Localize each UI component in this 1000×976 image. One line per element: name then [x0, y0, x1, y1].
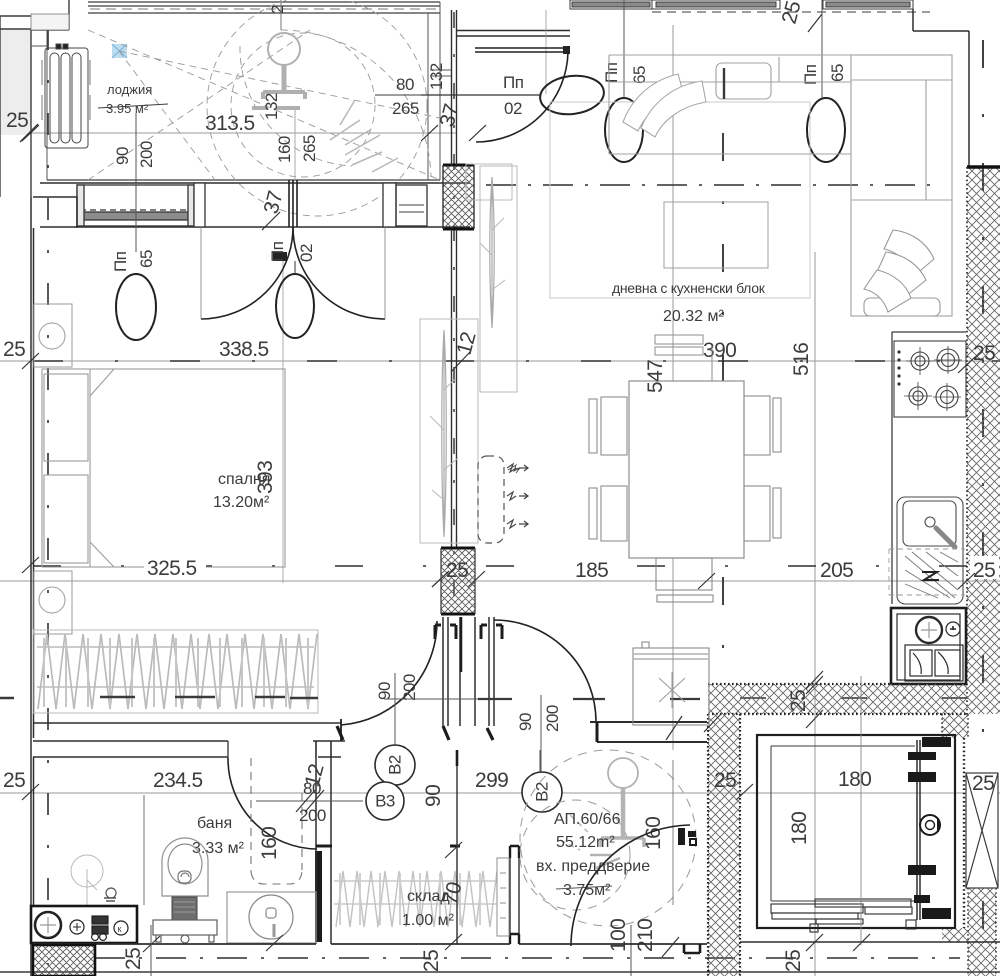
svg-text:13.20м²: 13.20м² [213, 494, 270, 511]
bedroom door arc [341, 621, 437, 725]
window west (loggia-bedroom) [77, 185, 194, 226]
svg-text:160: 160 [642, 817, 665, 850]
svg-text:160: 160 [275, 136, 294, 163]
storage door jambs [316, 845, 460, 848]
wall axis dashes x=48 [47, 28, 49, 965]
rug under seating [550, 102, 810, 298]
axis line G vertical x=283 bedroom pendant wire [282, 252, 284, 583]
balcony double door closed leaves [289, 180, 297, 227]
svg-text:25: 25 [446, 559, 468, 582]
kitchen counter along east wall [892, 332, 966, 604]
balcony door to loggia [475, 48, 568, 52]
svg-text:25: 25 [973, 342, 995, 365]
vanity between storage and hall [510, 846, 519, 944]
bed [42, 369, 285, 567]
east wall hatch block above elevator [942, 714, 968, 738]
console above table [655, 335, 712, 381]
elevator door mechanism [917, 740, 920, 920]
entrance door leaf [678, 828, 685, 845]
corridor hatch band horizontal [708, 684, 968, 714]
axis line D horizontal y=793 [0, 792, 1000, 794]
svg-text:55.12m²: 55.12m² [556, 834, 615, 851]
bedroom top wall band [40, 183, 470, 227]
stove [894, 341, 966, 417]
nightstand north [34, 304, 72, 367]
corridor hatch band vertical [708, 714, 740, 976]
elevator axis ticks [806, 676, 870, 951]
door jamb right [383, 183, 396, 227]
cistern dark [172, 897, 197, 920]
svg-text:200: 200 [137, 141, 156, 168]
svg-text:25: 25 [972, 772, 994, 795]
pendant lamp bedroom center [276, 274, 314, 338]
axis line C horizontal y=581 [0, 580, 1000, 582]
svg-text:25: 25 [6, 109, 28, 132]
axis line E vertical x=673 [672, 25, 674, 750]
bathroom west wall [31, 738, 34, 976]
sofa sectional [609, 55, 952, 316]
ceiling light cross [659, 672, 685, 708]
dim chain dashes y=698 elevator band [740, 697, 968, 699]
wall step under loggia [33, 197, 77, 228]
wall segment between doors [460, 617, 475, 726]
bedroom south wall [33, 723, 341, 741]
chairs east [744, 396, 770, 455]
sink unit [897, 497, 963, 604]
svg-text:516: 516 [790, 343, 813, 376]
loggia right wall [428, 2, 440, 180]
svg-text:Пп: Пп [268, 241, 287, 262]
svg-text:180: 180 [838, 768, 871, 791]
bottom right wall lines [740, 941, 1000, 943]
svg-text:25: 25 [122, 948, 145, 970]
storage/hall wall [456, 750, 458, 944]
svg-text:390: 390 [703, 339, 736, 362]
hall door arc [494, 620, 596, 722]
svg-text:дневна с кухненски блок: дневна с кухненски блок [612, 280, 766, 296]
svg-text:299: 299 [475, 769, 508, 792]
wall axis dashes x=983 [982, 40, 984, 965]
axis line B horizontal y=361 [0, 360, 1000, 362]
gray window pocket right of column [466, 164, 512, 200]
svg-text:баня: баня [197, 815, 232, 832]
svg-text:180: 180 [788, 812, 811, 845]
svg-text:80: 80 [396, 75, 414, 94]
pendant horizontal ellipse [538, 72, 606, 118]
svg-text:393: 393 [254, 461, 277, 494]
svg-text:Пп: Пп [111, 251, 130, 272]
curved chaise cushions [623, 74, 706, 137]
tick marks on axis A [22, 125, 486, 141]
svg-text:65: 65 [137, 250, 156, 268]
plant bath [71, 855, 103, 908]
svg-text:25: 25 [714, 769, 736, 792]
svg-text:234.5: 234.5 [153, 769, 203, 792]
svg-text:325.5: 325.5 [147, 557, 197, 580]
wall axis dashes x=723 [722, 133, 724, 672]
hall dashed turning circles [520, 750, 696, 926]
pendant lamp living west [605, 98, 643, 162]
svg-text:В2: В2 [386, 755, 405, 775]
ottoman [664, 202, 768, 268]
svg-text:100: 100 [607, 919, 630, 952]
svg-text:25: 25 [420, 950, 443, 972]
shower glass dashed [251, 758, 302, 884]
svg-text:2: 2 [268, 5, 287, 14]
window east small [396, 185, 427, 226]
svg-text:Пп: Пп [503, 73, 524, 92]
hatched wall column mid (bedroom SE) [441, 548, 475, 614]
east exterior wall hatch upper [967, 167, 1000, 714]
door jamb left [194, 183, 205, 227]
svg-text:338.5: 338.5 [219, 338, 269, 361]
loggia left inner wall [31, 30, 47, 180]
bedroom east wall double line [452, 229, 457, 548]
loggia top railing band [88, 2, 440, 13]
svg-text:265: 265 [392, 99, 419, 118]
svg-text:20.32 м²: 20.32 м² [663, 308, 724, 325]
bottom axis dashes y=958 [95, 957, 960, 959]
wall axis dashes x=460 [453, 12, 455, 614]
svg-text:65: 65 [630, 66, 649, 84]
svg-text:В2: В2 [533, 782, 552, 802]
svg-text:132: 132 [262, 93, 281, 120]
hall accessibility figure gray [560, 758, 644, 868]
toilet [162, 838, 208, 896]
svg-text:02: 02 [504, 99, 522, 118]
svg-text:90: 90 [113, 147, 132, 165]
entrance door arc [571, 825, 690, 946]
svg-text:185: 185 [575, 559, 608, 582]
living beam axis dashes y=185 [486, 184, 935, 186]
svg-text:200: 200 [299, 806, 326, 825]
top-left corner wall piece [31, 0, 69, 30]
axis line F vertical x=815 [814, 252, 816, 976]
B2 circle hall [522, 772, 562, 812]
bath/storage wall [316, 757, 331, 944]
svg-text:АП.60/66: АП.60/66 [554, 811, 621, 828]
small faucet icon [104, 888, 116, 901]
svg-text:80: 80 [303, 779, 321, 798]
washer dryer block [891, 608, 966, 684]
hatched wall column top [443, 165, 474, 229]
elevator sill rails [771, 899, 916, 932]
svg-text:90: 90 [422, 785, 445, 807]
bottom wall band [33, 943, 510, 945]
dim chain dashes y=566 [33, 565, 1000, 567]
B2 circle [375, 745, 415, 785]
living top wall west segment [456, 31, 570, 37]
washing machine bath [31, 906, 137, 943]
X-brace column [966, 773, 998, 888]
svg-text:132: 132 [427, 63, 446, 90]
svg-text:к: к [118, 924, 122, 934]
svg-text:313.5: 313.5 [205, 112, 255, 135]
svg-text:200: 200 [400, 674, 419, 701]
B3 circle [366, 782, 404, 820]
dining table [629, 381, 744, 558]
svg-text:265: 265 [300, 135, 319, 162]
radiator [42, 44, 90, 148]
loggia dashed sight lines [88, 0, 440, 216]
svg-text:02: 02 [297, 244, 316, 262]
svg-text:В3: В3 [375, 792, 395, 811]
plants along east wall [420, 166, 517, 543]
loggia accessibility figure gray [252, 33, 305, 108]
svg-text:210: 210 [634, 919, 657, 952]
chairs west [589, 396, 781, 541]
svg-text:3.95 м²: 3.95 м² [106, 101, 149, 116]
blue marker square [112, 44, 127, 58]
svg-text:25: 25 [3, 338, 25, 361]
svg-text:200: 200 [543, 705, 562, 732]
toilet platform [153, 920, 217, 943]
svg-text:160: 160 [258, 827, 281, 860]
svg-text:25: 25 [973, 559, 995, 582]
kitchen lower cabinets [633, 558, 713, 725]
top-right corner wall [913, 9, 969, 167]
svg-text:Пп: Пп [602, 62, 621, 83]
storage hatch zigzag [334, 871, 497, 927]
bedroom double door swing arcs [201, 227, 385, 319]
door post 2 [489, 617, 494, 726]
svg-text:1.00 м²: 1.00 м² [402, 912, 455, 929]
loggia pendant wire and dashes [294, 110, 296, 180]
pendant lamp bedroom west [116, 274, 156, 340]
loggia floor edge [47, 179, 440, 181]
svg-text:90: 90 [375, 682, 394, 700]
swivel chair [864, 230, 940, 316]
insulation dotted strip beside elevator [963, 738, 965, 928]
pendant lamp living east [807, 98, 845, 162]
shower tray [227, 892, 316, 943]
tick bottom shower [266, 935, 283, 951]
bath partition gray [143, 795, 145, 905]
axis line A horizontal y=133 [0, 132, 457, 134]
svg-text:90: 90 [516, 713, 535, 731]
svg-text:лоджия: лоджия [107, 82, 152, 97]
dim chain dashes y=361 [33, 360, 1000, 362]
svg-text:547: 547 [644, 360, 667, 393]
boiler with arrows [478, 456, 520, 543]
svg-text:25: 25 [782, 950, 805, 972]
nightstand south [34, 571, 72, 634]
svg-text:25: 25 [3, 769, 25, 792]
bath door jambs black [337, 726, 493, 740]
hatch block right of elevator bottom [942, 928, 968, 942]
hall north wall [590, 722, 707, 742]
bath door open leaf black [315, 851, 322, 942]
elevator car [757, 735, 955, 928]
east wall hatch below X-column [968, 888, 996, 976]
svg-text:65: 65 [828, 64, 847, 82]
svg-text:вх. преддверие: вх. преддверие [536, 858, 650, 875]
loggia outer wall left gray fill [0, 29, 31, 135]
svg-text:205: 205 [820, 559, 853, 582]
door post 1 [443, 617, 448, 726]
top window band [570, 0, 930, 12]
bath door swing [228, 758, 317, 849]
hatch block bottom-left [33, 945, 95, 976]
bedroom west wall [31, 197, 34, 738]
wardrobe [33, 630, 318, 713]
